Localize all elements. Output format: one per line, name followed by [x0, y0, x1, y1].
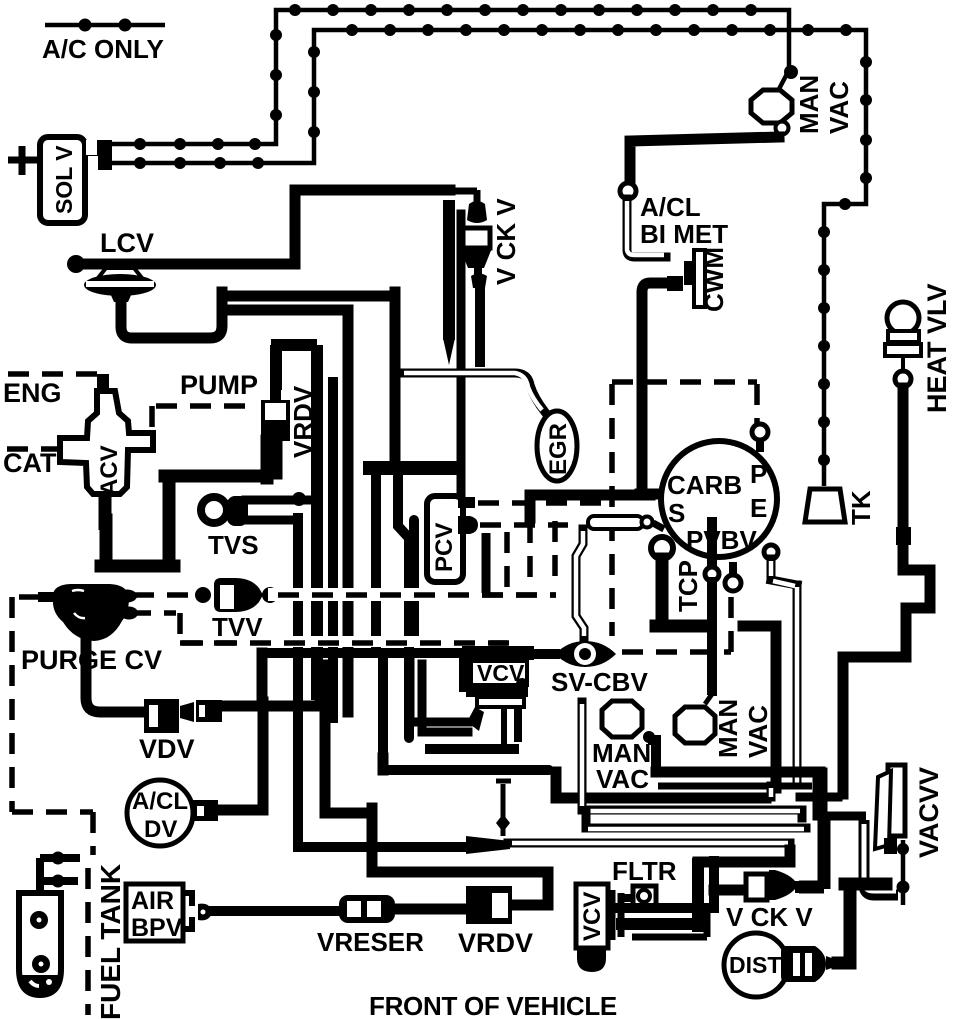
white gaps at dashed crossings: [268, 588, 478, 601]
hose VRDV top to bundle: [271, 345, 317, 700]
hose EGR thin line to PCV: [400, 373, 545, 412]
thermal switch TVS: [201, 496, 248, 526]
port TCP: [651, 537, 710, 626]
vacuum check valve VACVV: [875, 765, 905, 854]
label A/CL BI MET: [640, 192, 728, 249]
throttle kicker TK: [805, 489, 845, 522]
wire bundle hose x383 to manifold line: [378, 658, 388, 766]
svg-text:VAC: VAC: [596, 764, 649, 794]
check valve V CK V (bottom): [746, 870, 801, 900]
svg-text:DV: DV: [144, 816, 177, 843]
hose CWM down to CARB: [640, 283, 668, 494]
hose HEAT VLV down right side: [843, 388, 930, 794]
regulator VRDV (top): [261, 385, 290, 456]
svg-text:PVBV: PVBV: [686, 525, 757, 555]
hose VCV out upper: [618, 861, 714, 908]
dashed ENG line: [8, 374, 100, 388]
port S line down: [705, 522, 719, 704]
svg-text:V CK V: V CK V: [726, 902, 813, 932]
hose thin elbow to VACVV: [864, 820, 898, 895]
hose V CK V down to EGR line: [475, 287, 485, 362]
dashed PCV lower port line: [480, 522, 568, 528]
dashed PURGE to TVV: [133, 592, 193, 598]
svg-text:E: E: [750, 493, 767, 523]
hose fuel tank vents: [40, 852, 80, 894]
svg-text:PUMP: PUMP: [180, 370, 258, 400]
hose PURGE CV to VDV: [86, 638, 140, 712]
dashed PURGE lower to TVV dashed run: [130, 613, 520, 643]
purge valve PURGE CV: [38, 584, 138, 641]
carburetor CARB circle: [661, 441, 777, 557]
filter eye (thin): [298, 836, 510, 854]
dashed PUMP line: [152, 406, 245, 438]
solenoid SOL V: [40, 137, 85, 223]
fuel tank: [19, 893, 61, 995]
dashed TVV to carb: [278, 592, 556, 598]
svg-text:MAN: MAN: [713, 699, 743, 758]
svg-text:FLTR: FLTR: [612, 856, 677, 886]
label MAN VAC (center): [592, 738, 651, 794]
distributor DIST: [724, 933, 840, 997]
valve TVV: [195, 578, 278, 612]
hose VCV out lower to V CK V: [714, 885, 744, 896]
hose VCV bottom port line y747: [430, 744, 514, 754]
wire elbow to VCV feed lower: [422, 664, 468, 732]
hose DIST to junction: [838, 884, 886, 963]
hose heat line merge: [800, 793, 838, 802]
svg-text:BPV: BPV: [131, 914, 183, 942]
svg-text:VRESER: VRESER: [317, 927, 424, 957]
svg-text:A/CL: A/CL: [132, 788, 188, 815]
valve LCV: [67, 255, 156, 302]
air control valve ACV: [60, 374, 153, 530]
wire bundle hose x414: [409, 520, 419, 640]
svg-text:S: S: [668, 498, 685, 528]
svg-text:VRDV: VRDV: [458, 928, 533, 958]
air bypass valve AIR BPV: [126, 884, 212, 942]
svg-text:VAC: VAC: [743, 705, 773, 758]
hose thin pair y843: [508, 843, 790, 855]
hose staircase to VRDV2: [325, 665, 548, 905]
svg-text:ENG: ENG: [3, 378, 62, 408]
hose main run y653: [262, 648, 520, 658]
plus terminal: [8, 146, 38, 175]
svg-text:SOL V: SOL V: [51, 145, 77, 214]
fitting MAN VAC (hex, center): [602, 701, 656, 772]
svg-text:AIR: AIR: [131, 887, 174, 915]
vacuum tap diamond: [496, 781, 511, 836]
hose VCV wand thin: [582, 702, 806, 829]
filter FLTR: [618, 886, 656, 906]
dashed SV-CBV to carb port: [622, 562, 741, 652]
hose TVS upper port: [246, 492, 317, 506]
hose TVS line down the bundle: [293, 518, 303, 847]
svg-text:TVS: TVS: [208, 530, 259, 560]
hose thin cap at x771: [767, 786, 776, 797]
port E hose (thin): [764, 545, 797, 785]
manifold vacuum fitting MAN VAC (top right): [751, 90, 792, 135]
hose LCV bottom run: [121, 292, 456, 738]
svg-text:VAC: VAC: [824, 81, 854, 134]
svg-text:PURGE CV: PURGE CV: [21, 645, 162, 675]
svg-text:A/C ONLY: A/C ONLY: [42, 34, 164, 64]
svg-text:PCV: PCV: [431, 523, 458, 572]
dashed CAT line: [7, 446, 60, 452]
hose VRDV bottom to ACV loop: [101, 441, 276, 566]
check valve V CK V (top): [78, 190, 492, 288]
label MAN VAC (top right, rotated): [794, 75, 854, 134]
fitting MAN VAC (hex, right): [675, 707, 715, 743]
valve VCV (left, labeled box): [459, 646, 534, 748]
svg-text:ACV: ACV: [96, 445, 123, 496]
hose MAN VAC to CWM junction: [620, 137, 779, 257]
hose AIR BPV to VRESER: [212, 906, 341, 916]
dashed fuel tank line: [85, 868, 91, 1015]
svg-text:SV-CBV: SV-CBV: [551, 667, 648, 697]
svg-text:EGR: EGR: [545, 423, 572, 475]
svg-text:VDV: VDV: [139, 734, 195, 764]
svg-text:VCV: VCV: [579, 892, 606, 941]
svg-text:CARB: CARB: [667, 470, 742, 500]
hose A/CL DV line: [218, 702, 263, 810]
svg-text:DIST: DIST: [729, 952, 781, 978]
hose to carb S port: [530, 495, 650, 518]
delay valve VDV: [144, 699, 222, 733]
solenoid valve SV-CBV: [520, 641, 616, 667]
port P ring: [752, 424, 768, 452]
hose stub pair under LCV line: [443, 200, 461, 510]
svg-text:P: P: [750, 459, 767, 489]
pipe fitting at TCP: [576, 516, 664, 638]
regulator VRDV (bottom): [466, 886, 512, 924]
svg-text:HEAT VLV: HEAT VLV: [922, 283, 952, 413]
hose bundle x333: [328, 382, 338, 718]
wire A/C dotted line 1 (SOL V to MAN VAC): [110, 4, 798, 150]
elbow fitting at SOL V: [86, 140, 112, 170]
heat valve HEAT VLV: [885, 302, 921, 387]
hose TVS lower port: [240, 516, 298, 525]
valve VCV (bottom, rotated box): [576, 884, 621, 972]
hose stubs near carb bowl: [486, 521, 555, 593]
svg-text:TCP: TCP: [673, 560, 703, 612]
delay valve A/CL DV: [127, 780, 218, 846]
bimetal valve CWM: [667, 250, 705, 307]
wire A/C dotted line 2 (SOL V to TK): [110, 24, 872, 486]
svg-text:V CK V: V CK V: [491, 198, 521, 285]
hose thick x776: [743, 626, 776, 788]
svg-text:FUEL TANK: FUEL TANK: [95, 864, 126, 1020]
hose VDV output: [222, 653, 325, 706]
dashed canister line left: [12, 597, 93, 855]
reservoir VRESER: [339, 895, 395, 923]
legend A/C ONLY sample line: [45, 19, 165, 32]
svg-text:LCV: LCV: [100, 228, 154, 258]
EGR valve: [537, 411, 577, 481]
hose main manifold line y770: [383, 758, 866, 816]
wire bundle hose x374: [371, 470, 381, 646]
dashed PCV upper port line: [478, 500, 612, 506]
oil separator PCV: [427, 496, 478, 582]
label MAN VAC (right, rotated): [713, 699, 773, 758]
svg-text:BI MET: BI MET: [640, 219, 728, 249]
svg-text:TK: TK: [846, 490, 876, 525]
hose V CK V output up: [799, 818, 824, 889]
svg-text:FRONT OF VEHICLE: FRONT OF VEHICLE: [369, 991, 617, 1020]
hose manifold branch y786: [658, 783, 812, 790]
svg-text:MAN: MAN: [794, 75, 824, 134]
dashed carb spacer box: [612, 382, 757, 636]
A/C dotted stub at VACVV: [897, 840, 910, 905]
svg-text:VACVV: VACVV: [914, 767, 944, 858]
svg-text:CWM: CWM: [699, 247, 729, 312]
wire elbow to VCV feed upper: [410, 662, 468, 722]
svg-text:CAT: CAT: [3, 448, 57, 478]
hose VRESER to VRDV2: [395, 904, 464, 915]
svg-text:A/CL: A/CL: [640, 192, 701, 222]
